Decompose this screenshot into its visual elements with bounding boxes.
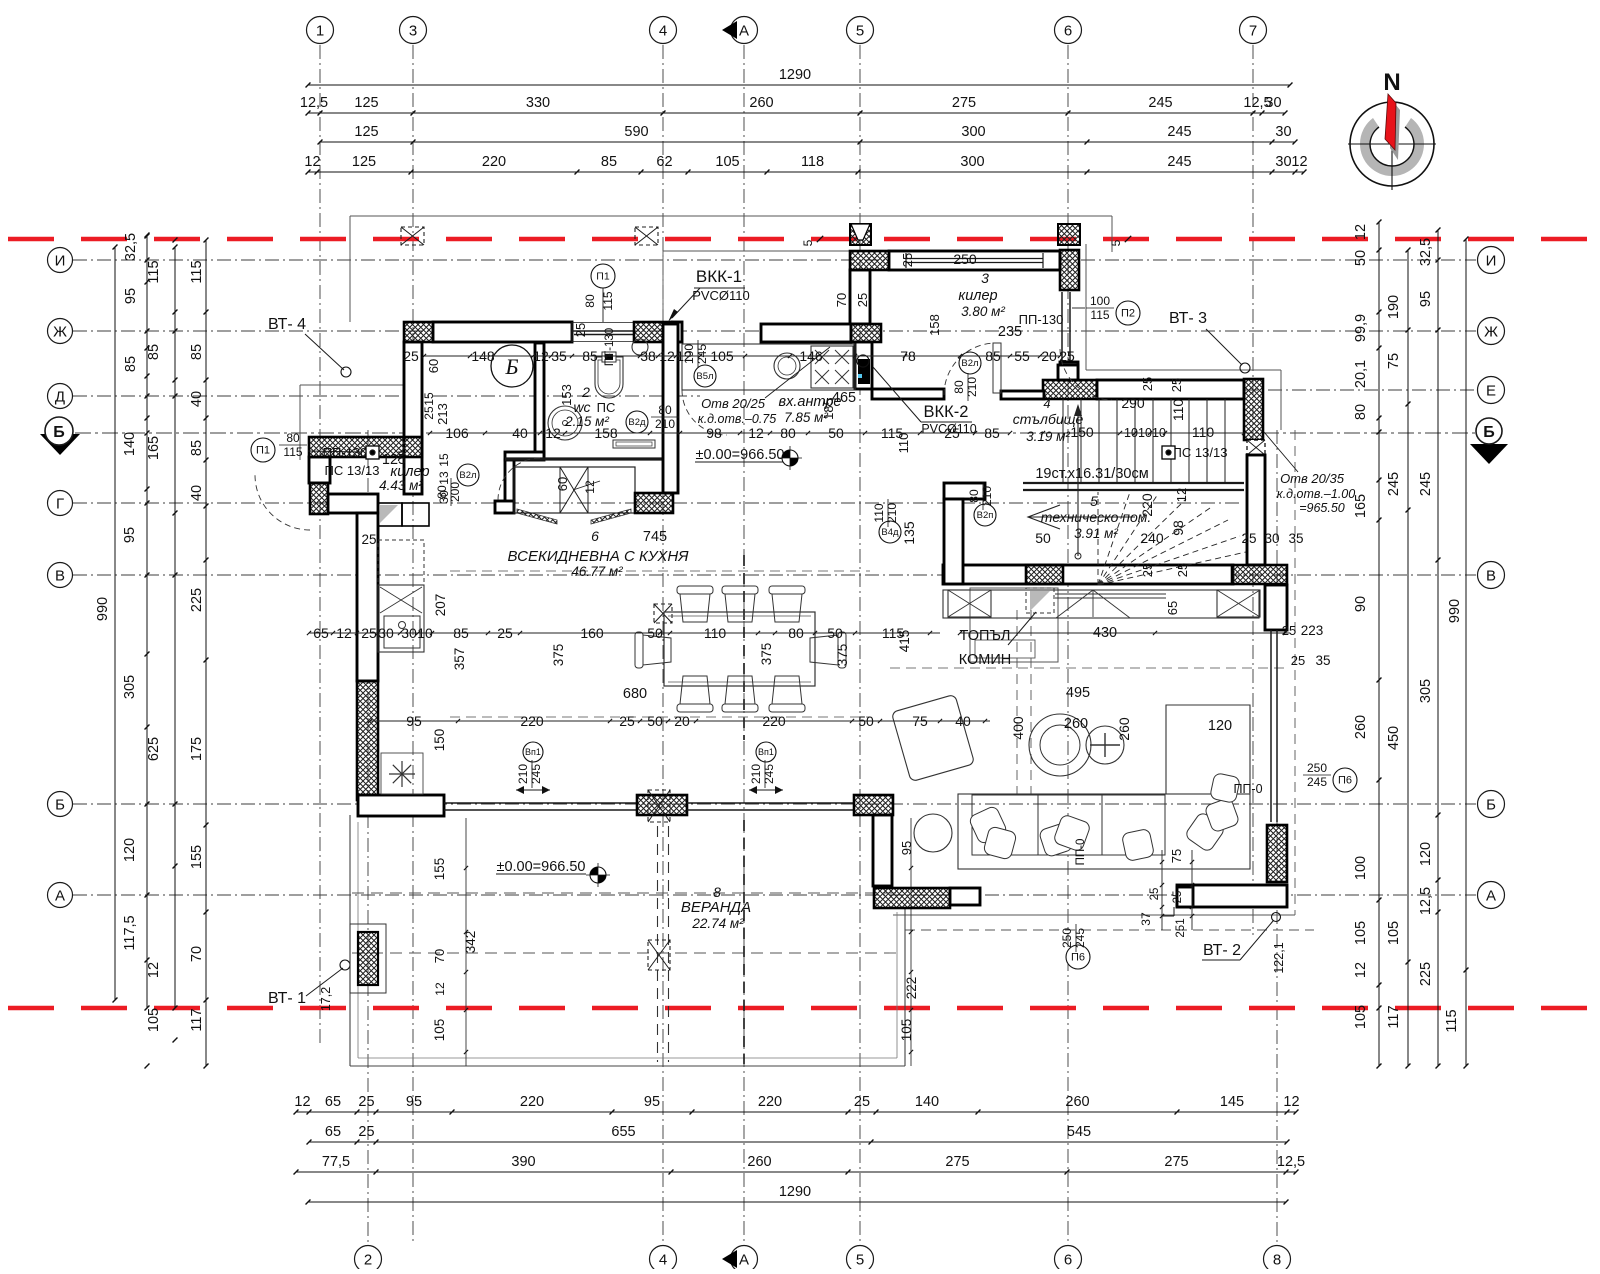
svg-text:техническо пом.: техническо пом.	[1041, 509, 1151, 525]
svg-text:70: 70	[189, 946, 205, 962]
window south-center	[687, 802, 854, 804]
svg-text:117: 117	[189, 1008, 205, 1031]
svg-text:8: 8	[713, 884, 721, 900]
svg-text:12: 12	[1174, 488, 1189, 502]
svg-text:65: 65	[325, 1124, 341, 1140]
svg-text:60: 60	[426, 359, 441, 373]
svg-text:175: 175	[189, 737, 205, 761]
svg-text:6: 6	[1064, 1252, 1072, 1269]
svg-text:80: 80	[583, 294, 597, 308]
grid vertical axes	[319, 45, 321, 1045]
south wall left segment	[358, 795, 444, 816]
svg-text:3: 3	[409, 23, 417, 40]
chimney columns on red line	[850, 224, 871, 245]
svg-text:77,5: 77,5	[322, 1154, 350, 1170]
svg-text:В4д: В4д	[881, 527, 899, 538]
svg-text:17,2: 17,2	[319, 987, 333, 1011]
svg-text:ВТ- 4: ВТ- 4	[268, 316, 306, 333]
stair north wall	[1043, 380, 1097, 399]
svg-text:Б: Б	[1486, 797, 1496, 814]
svg-text:251: 251	[1175, 918, 1187, 937]
svg-text:250: 250	[1307, 761, 1327, 775]
svg-text:75: 75	[1386, 353, 1402, 369]
svg-text:220: 220	[1139, 493, 1155, 517]
svg-text:120: 120	[1418, 842, 1434, 866]
svg-text:117,5: 117,5	[122, 915, 138, 950]
svg-text:12,5: 12,5	[1277, 1154, 1305, 1170]
svg-text:330: 330	[526, 95, 550, 111]
wc shelf	[613, 440, 655, 448]
south-east wall band	[1177, 885, 1287, 907]
right dimension chains	[1378, 222, 1380, 1066]
svg-text:Вп1: Вп1	[525, 747, 541, 757]
svg-text:25: 25	[1140, 563, 1155, 577]
svg-text:125: 125	[382, 452, 406, 468]
svg-text:300: 300	[961, 124, 985, 140]
svg-text:30: 30	[1275, 124, 1291, 140]
svg-text:100: 100	[1353, 856, 1369, 880]
svg-text:В2л: В2л	[961, 358, 978, 369]
svg-text:105: 105	[715, 154, 739, 170]
svg-text:ПС 13/13: ПС 13/13	[325, 463, 380, 478]
svg-text:25: 25	[1291, 653, 1305, 668]
svg-text:105: 105	[432, 1019, 447, 1042]
technical room wall	[944, 483, 985, 499]
svg-text:495: 495	[1066, 685, 1090, 701]
axis circles top	[307, 17, 334, 44]
svg-text:680: 680	[623, 686, 647, 702]
svg-text:122,1: 122,1	[1272, 942, 1286, 973]
svg-text:220: 220	[520, 1094, 544, 1110]
svg-text:110: 110	[1192, 424, 1215, 440]
svg-text:75: 75	[1169, 849, 1184, 863]
svg-text:245: 245	[1148, 95, 1172, 111]
antre/grid5 connector walls	[850, 270, 870, 324]
svg-text:240: 240	[1140, 530, 1164, 546]
svg-text:ВКК-2: ВКК-2	[924, 403, 969, 421]
svg-text:290: 290	[1121, 395, 1145, 411]
svg-text:85: 85	[146, 344, 162, 360]
svg-text:7: 7	[1249, 23, 1257, 40]
stove 4 burners	[811, 346, 853, 388]
svg-text:655: 655	[611, 1124, 635, 1140]
kitchen north counter	[682, 344, 855, 390]
svg-text:5: 5	[856, 23, 864, 40]
armchair rotated	[891, 694, 974, 781]
sink top	[774, 353, 800, 379]
svg-text:115: 115	[189, 260, 205, 283]
svg-text:50: 50	[1035, 530, 1051, 546]
svg-text:158: 158	[927, 314, 942, 336]
svg-text:12: 12	[583, 480, 597, 494]
svg-text:85: 85	[189, 440, 205, 456]
svg-text:A: A	[739, 23, 749, 40]
svg-text:225: 225	[1418, 962, 1434, 986]
svg-text:260: 260	[1064, 716, 1088, 732]
svg-text:210: 210	[516, 764, 530, 784]
svg-text:19ст.х16.31/30см: 19ст.х16.31/30см	[1035, 466, 1148, 482]
svg-text:3.19 м²: 3.19 м²	[1026, 429, 1070, 444]
svg-text:125: 125	[354, 95, 378, 111]
svg-text:150: 150	[1070, 424, 1094, 440]
svg-text:15: 15	[437, 453, 451, 467]
svg-text:3.91 м²: 3.91 м²	[1074, 526, 1118, 541]
svg-text:210: 210	[980, 486, 994, 506]
svg-text:120: 120	[122, 838, 138, 862]
svg-text:Д: Д	[55, 389, 65, 406]
svg-text:98: 98	[1170, 520, 1186, 536]
svg-text:А: А	[1486, 888, 1496, 905]
svg-text:В2д: В2д	[628, 417, 646, 428]
technical room arrow	[1028, 505, 1060, 529]
svg-text:250: 250	[1060, 928, 1074, 948]
long hatched band west	[309, 437, 422, 457]
bottom dimension chains	[296, 1111, 1296, 1113]
svg-text:25: 25	[358, 1124, 374, 1140]
svg-text:Г: Г	[56, 496, 64, 513]
svg-text:260: 260	[749, 95, 773, 111]
svg-text:165: 165	[1353, 494, 1369, 518]
svg-text:25: 25	[900, 253, 915, 267]
svg-text:155: 155	[432, 858, 447, 881]
svg-text:80: 80	[658, 403, 672, 417]
fireplace cabinet row	[943, 590, 1259, 618]
svg-text:105: 105	[1353, 1005, 1369, 1029]
svg-text:95: 95	[1418, 291, 1434, 307]
red dashed section lines	[8, 237, 1592, 242]
svg-text:ПП-130: ПП-130	[1019, 312, 1064, 327]
svg-text:ВТ- 3: ВТ- 3	[1169, 310, 1207, 327]
svg-text:260: 260	[1116, 717, 1132, 741]
kiler east window	[1061, 292, 1063, 362]
svg-text:135: 135	[901, 521, 917, 545]
svg-text:105: 105	[146, 1008, 162, 1032]
svg-text:1: 1	[316, 23, 324, 40]
dashed X boxes on red line	[401, 227, 424, 245]
svg-text:85: 85	[189, 344, 205, 360]
west counter with sink and stove	[378, 585, 424, 652]
svg-text:70: 70	[834, 293, 849, 307]
svg-text:115: 115	[1090, 308, 1109, 322]
svg-text:25: 25	[1172, 891, 1184, 904]
svg-text:213: 213	[435, 403, 450, 425]
B circles	[694, 365, 716, 387]
svg-text:ВСЕКИДНЕВНА С КУХНЯ: ВСЕКИДНЕВНА С КУХНЯ	[508, 548, 690, 565]
svg-text:20,1: 20,1	[1353, 360, 1369, 388]
svg-text:25: 25	[1282, 623, 1296, 638]
svg-text:КОМИН: КОМИН	[959, 652, 1012, 668]
svg-text:190: 190	[1386, 295, 1402, 319]
svg-text:ВКК-1: ВКК-1	[696, 267, 742, 286]
toilet	[595, 357, 623, 398]
svg-text:ПП-130: ПП-130	[323, 445, 368, 460]
svg-text:=965.50: =965.50	[1299, 501, 1345, 515]
left dimension chains	[114, 247, 116, 1000]
svg-text:450: 450	[1386, 726, 1402, 750]
svg-text:32,5: 32,5	[123, 233, 139, 261]
door width arrows veranda	[516, 789, 550, 791]
svg-text:990: 990	[1447, 599, 1463, 623]
svg-text:80: 80	[952, 380, 966, 394]
svg-text:210: 210	[965, 377, 979, 397]
svg-text:415: 415	[897, 630, 912, 653]
svg-text:12: 12	[1353, 224, 1369, 240]
west vertical wall upper	[404, 342, 422, 494]
svg-text:65: 65	[1165, 601, 1180, 615]
grid horizontal axes	[73, 259, 1476, 261]
svg-text:65: 65	[325, 1094, 341, 1110]
svg-text:625: 625	[146, 737, 162, 761]
window south-west	[444, 802, 637, 804]
floor lamp	[1086, 726, 1124, 764]
svg-text:115: 115	[601, 291, 615, 310]
svg-text:wc: wc	[573, 399, 590, 415]
svg-text:25: 25	[854, 1094, 870, 1110]
svg-text:13: 13	[437, 471, 451, 485]
svg-text:ПТ-130: ПТ-130	[604, 328, 616, 366]
svg-text:60: 60	[555, 477, 570, 491]
svg-text:105: 105	[899, 1019, 914, 1042]
dashed X boxes grid4	[654, 604, 672, 623]
svg-text:1290: 1290	[779, 1184, 811, 1200]
svg-text:В2л: В2л	[459, 470, 476, 481]
stair south hatched band	[943, 565, 1233, 584]
north wall right part (kiler)	[850, 251, 889, 270]
roof overhang outline	[350, 215, 1112, 217]
svg-text:80: 80	[286, 431, 300, 445]
svg-text:1290: 1290	[779, 67, 811, 83]
svg-text:12: 12	[1291, 154, 1307, 170]
svg-text:Б: Б	[505, 354, 519, 379]
svg-text:25: 25	[1169, 378, 1184, 392]
svg-text:95: 95	[644, 1094, 660, 1110]
svg-text:95: 95	[122, 527, 138, 543]
built-in wardrobe	[514, 467, 635, 513]
svg-text:П1: П1	[256, 445, 270, 457]
axis circles bottom	[355, 1246, 382, 1273]
svg-text:Отв 20/25: Отв 20/25	[701, 396, 766, 411]
svg-text:223: 223	[1301, 623, 1324, 638]
svg-text:5: 5	[1090, 493, 1098, 509]
svg-text:5: 5	[856, 1252, 864, 1269]
axis circles left	[48, 248, 73, 273]
svg-text:342: 342	[463, 931, 478, 954]
svg-text:4.43 м²: 4.43 м²	[379, 478, 423, 493]
svg-text:12: 12	[1353, 962, 1369, 978]
svg-text:Ж: Ж	[1484, 324, 1498, 341]
svg-text:30: 30	[1265, 95, 1281, 111]
svg-text:ВЕРАНДА: ВЕРАНДА	[681, 899, 751, 916]
window north	[572, 322, 634, 324]
svg-text:25: 25	[1140, 377, 1155, 391]
svg-text:И: И	[55, 253, 66, 270]
svg-text:В5л: В5л	[696, 371, 713, 382]
svg-text:225: 225	[189, 588, 205, 612]
svg-text:ТОПЪЛ: ТОПЪЛ	[960, 628, 1011, 644]
svg-text:85: 85	[123, 356, 139, 372]
west wall of kitchen	[357, 513, 378, 681]
svg-text:46.77 м²: 46.77 м²	[571, 564, 623, 579]
svg-text:П6: П6	[1071, 952, 1085, 964]
svg-text:5: 5	[1109, 239, 1123, 246]
svg-text:275: 275	[1164, 1154, 1188, 1170]
svg-text:2: 2	[581, 384, 590, 400]
svg-text:ПС: ПС	[597, 400, 616, 415]
svg-text:37: 37	[1139, 912, 1153, 926]
svg-text:32,5: 32,5	[1418, 238, 1434, 266]
fireplace	[1026, 588, 1054, 613]
svg-text:165: 165	[146, 436, 162, 460]
sofa	[958, 794, 1250, 869]
stair east wall	[1247, 440, 1265, 455]
svg-text:4: 4	[659, 1252, 667, 1269]
svg-text:5: 5	[801, 239, 815, 246]
svg-text:килер: килер	[958, 288, 997, 304]
axis circles right	[1478, 247, 1505, 274]
svg-text:260: 260	[1353, 715, 1369, 739]
svg-text:115: 115	[146, 260, 162, 283]
top dimension chains	[308, 84, 1290, 86]
svg-text:N: N	[1383, 69, 1400, 96]
svg-text:к.д.отв.–1.00: к.д.отв.–1.00	[1277, 487, 1355, 501]
svg-text:260: 260	[747, 1154, 771, 1170]
svg-text:Б: Б	[55, 797, 65, 814]
svg-text:95: 95	[123, 288, 139, 304]
svg-text:25: 25	[403, 348, 419, 364]
svg-text:30: 30	[437, 490, 451, 504]
svg-text:110: 110	[872, 503, 886, 522]
stairs	[1062, 399, 1064, 483]
svg-text:62: 62	[656, 154, 672, 170]
svg-text:117: 117	[1386, 1005, 1402, 1028]
svg-text:25: 25	[1241, 531, 1256, 546]
svg-text:25: 25	[855, 293, 870, 307]
svg-text:245: 245	[762, 764, 776, 784]
svg-text:22.74 м²: 22.74 м²	[691, 916, 744, 931]
snowflake symbol	[381, 753, 423, 794]
svg-text:И: И	[1486, 253, 1497, 270]
north compass	[1348, 69, 1436, 190]
svg-text:В: В	[1486, 568, 1496, 585]
svg-text:40: 40	[189, 391, 205, 407]
svg-text:375: 375	[759, 643, 774, 666]
svg-text:305: 305	[122, 675, 138, 699]
stair winder dashed lines	[1098, 492, 1130, 585]
svg-text:35: 35	[1288, 531, 1303, 546]
svg-text:99,9: 99,9	[1353, 314, 1369, 342]
svg-text:210: 210	[655, 417, 675, 431]
svg-text:12: 12	[294, 1094, 310, 1110]
svg-text:к.д.отв.–0.75: к.д.отв.–0.75	[698, 412, 776, 426]
svg-text:ПС 13/13: ПС 13/13	[1173, 445, 1228, 460]
svg-text:12,5: 12,5	[1418, 887, 1434, 915]
svg-text:990: 990	[95, 597, 111, 621]
svg-text:545: 545	[1067, 1124, 1091, 1140]
sofa cushions	[968, 805, 1008, 845]
P circles	[591, 264, 615, 288]
svg-text:2: 2	[364, 1252, 372, 1269]
svg-text:222: 222	[904, 977, 919, 1000]
svg-text:±0.00=966.50: ±0.00=966.50	[696, 447, 785, 463]
svg-text:ВТ- 2: ВТ- 2	[1203, 942, 1241, 959]
svg-text:235: 235	[998, 324, 1022, 340]
svg-text:140: 140	[915, 1094, 939, 1110]
svg-text:210: 210	[749, 764, 763, 784]
svg-text:30: 30	[1264, 531, 1279, 546]
svg-text:3.80 м²: 3.80 м²	[961, 304, 1005, 319]
south-west inner corner walls	[873, 815, 892, 886]
svg-text:260: 260	[1065, 1094, 1089, 1110]
round coffee table	[1029, 714, 1091, 776]
svg-text:95: 95	[899, 841, 914, 855]
svg-text:590: 590	[624, 124, 648, 140]
svg-text:375: 375	[835, 644, 850, 667]
svg-text:25: 25	[1149, 888, 1161, 901]
svg-text:П2: П2	[1121, 308, 1135, 320]
svg-text:245: 245	[1307, 775, 1327, 789]
svg-text:125: 125	[352, 154, 376, 170]
svg-text:245: 245	[529, 764, 543, 784]
svg-text:А: А	[55, 888, 65, 905]
door arcs dashed	[944, 343, 996, 395]
svg-text:118: 118	[801, 154, 824, 170]
svg-text:245: 245	[1073, 928, 1087, 948]
svg-text:80: 80	[1353, 404, 1369, 420]
svg-text:250: 250	[953, 251, 977, 267]
svg-text:110: 110	[896, 433, 911, 454]
svg-text:12: 12	[304, 154, 320, 170]
exterior walls: north-west block	[404, 322, 433, 342]
sofa side arm	[1166, 705, 1250, 794]
svg-text:Б: Б	[1483, 424, 1495, 441]
svg-text:ПП-0: ПП-0	[1233, 782, 1262, 796]
svg-text:Отв 20/35: Отв 20/35	[1280, 471, 1345, 486]
svg-text:25: 25	[422, 406, 436, 420]
svg-text:245: 245	[1167, 154, 1191, 170]
svg-text:В2п: В2п	[977, 510, 994, 521]
svg-text:25: 25	[358, 1094, 374, 1110]
svg-text:80: 80	[967, 489, 981, 503]
svg-text:25: 25	[1059, 348, 1075, 364]
svg-text:±0.00=966.50: ±0.00=966.50	[497, 859, 586, 875]
svg-text:220: 220	[758, 1094, 782, 1110]
svg-text:85: 85	[601, 154, 617, 170]
svg-text:12,5: 12,5	[300, 95, 328, 111]
veranda deck outline	[349, 815, 351, 1066]
svg-text:210: 210	[885, 503, 899, 523]
svg-text:Ж: Ж	[53, 324, 67, 341]
svg-text:25: 25	[361, 532, 376, 547]
svg-text:30: 30	[1275, 154, 1291, 170]
svg-text:300: 300	[960, 154, 984, 170]
svg-text:ВТ- 1: ВТ- 1	[268, 990, 306, 1007]
svg-text:305: 305	[1418, 679, 1434, 703]
svg-text:3: 3	[981, 270, 989, 286]
svg-text:153: 153	[559, 384, 574, 406]
svg-text:400: 400	[1010, 716, 1026, 740]
svg-text:115: 115	[283, 445, 302, 459]
svg-text:Е: Е	[1486, 383, 1496, 400]
svg-text:12: 12	[433, 982, 447, 996]
svg-text:90: 90	[1353, 596, 1369, 612]
svg-text:120: 120	[1208, 718, 1232, 734]
dining table	[664, 612, 815, 686]
svg-text:25: 25	[573, 323, 588, 337]
svg-text:245: 245	[1167, 124, 1191, 140]
svg-text:A: A	[739, 1252, 749, 1269]
east window	[1270, 630, 1272, 822]
section mark left	[40, 434, 80, 455]
